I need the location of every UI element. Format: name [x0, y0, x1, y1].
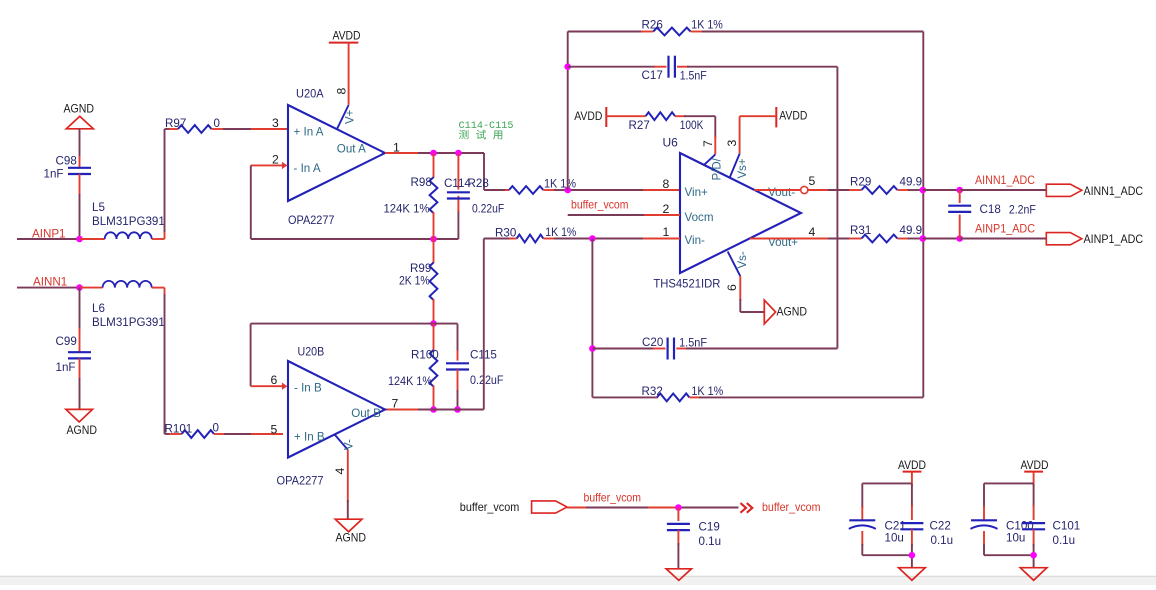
wire R30 to U6 pin 1 (Vin-) [592, 238, 680, 240]
ground below C19 [666, 569, 691, 581]
svg-text:Out B: Out B [351, 407, 381, 420]
svg-text:R27: R27 [629, 119, 650, 132]
svg-text:AINP1_ADC: AINP1_ADC [975, 223, 1035, 236]
junction R100 bottom [430, 406, 437, 413]
junction C20 left [589, 345, 596, 352]
junction C18 top [956, 187, 963, 194]
svg-text:R28: R28 [468, 177, 489, 190]
capacitor C101 [1022, 520, 1080, 548]
svg-text:P/D/: P/D/ [712, 157, 724, 180]
wire Vin+ node vertical to R26/C17 [567, 32, 569, 191]
svg-text:AGND: AGND [777, 305, 808, 319]
wire buffer_vcom [567, 507, 588, 509]
wire C115 top branch [434, 324, 458, 361]
capacitor C114 [444, 153, 504, 216]
svg-text:3: 3 [725, 140, 739, 147]
svg-text:5: 5 [809, 174, 816, 188]
svg-text:OPA2277: OPA2277 [277, 473, 324, 487]
wire AINP1_ADC to port [960, 238, 1047, 240]
wire AINP1 input [17, 238, 80, 240]
wire AINP1 node to L5 [80, 238, 105, 240]
svg-text:AINP1_ADC: AINP1_ADC [1084, 232, 1144, 246]
junction Vin- / vertical [589, 235, 596, 242]
wire Vin- node vertical to C20/R32 [591, 239, 593, 398]
wire R27 to U6 pin 7 [714, 116, 716, 154]
svg-text:buffer_vcom: buffer_vcom [762, 501, 821, 514]
svg-text:- In B: - In B [294, 382, 322, 395]
svg-text:R26: R26 [642, 19, 663, 32]
svg-text:AINN1: AINN1 [33, 276, 67, 289]
svg-text:buffer_vcom: buffer_vcom [584, 492, 642, 505]
svg-text:2K 1%: 2K 1% [399, 275, 430, 288]
wire C98 to AINP1 node [79, 174, 81, 239]
svg-text:+ In B: + In B [294, 431, 325, 444]
svg-text:8: 8 [335, 88, 349, 95]
U6 pin 5 bubble [801, 186, 808, 193]
svg-text:6: 6 [271, 373, 278, 387]
junction R99/R100/C115 [430, 320, 437, 327]
junction C17 left [564, 63, 571, 70]
U20B pin 6 arrowhead [282, 383, 288, 390]
svg-text:AGND: AGND [64, 102, 95, 116]
svg-text:THS4521IDR: THS4521IDR [653, 277, 720, 291]
svg-text:0.22uF: 0.22uF [472, 203, 504, 216]
svg-text:1: 1 [663, 225, 670, 239]
svg-text:V+: V+ [345, 109, 357, 124]
svg-text:1K 1%: 1K 1% [691, 18, 723, 31]
resistor R28 [468, 177, 577, 194]
ground below C100/C101 [1020, 568, 1047, 581]
wire Out B rail [385, 239, 513, 410]
wire U20A pin 2 feedback loop [251, 165, 459, 239]
svg-text:Vout-: Vout- [768, 186, 795, 199]
svg-text:1.5nF: 1.5nF [680, 70, 707, 83]
junction C114 top [455, 150, 462, 157]
svg-text:Vin+: Vin+ [685, 186, 709, 199]
wire L6 to R101 corner [152, 288, 182, 434]
off-page connector >> [741, 503, 753, 513]
wire AVDD to C100/C101 [984, 472, 1034, 521]
svg-text:BLM31PG391: BLM31PG391 [92, 215, 165, 228]
wire Vout- to C18 node [923, 189, 960, 191]
svg-text:124K 1%: 124K 1% [388, 375, 432, 388]
resistor R27 [606, 112, 715, 132]
svg-text:1K 1%: 1K 1% [545, 226, 576, 239]
wire AVDD to C21/C22 [862, 472, 912, 521]
svg-text:buffer_vcom: buffer_vcom [571, 198, 629, 211]
junction C22 ground [909, 552, 916, 559]
wire U20B pin 6 feedback loop [251, 324, 434, 387]
power AVDD right (Vs+) [776, 107, 807, 127]
svg-text:3: 3 [272, 116, 279, 130]
junction AINN1/C99 [76, 284, 83, 291]
wire AVDD to U20A pin 8 [348, 43, 350, 105]
svg-text:1nF: 1nF [56, 361, 76, 374]
svg-text:0: 0 [213, 422, 219, 435]
port AINP1_ADC [1046, 232, 1143, 246]
wire R28 to U6 pin 8 (Vin+) [568, 189, 680, 191]
junction C101 ground [1030, 552, 1037, 559]
svg-text:C20: C20 [642, 336, 663, 349]
wire AVDD to U6 pin 3 (Vs+) [740, 116, 777, 154]
svg-text:C22: C22 [930, 520, 951, 533]
wire Vocm [568, 214, 680, 216]
ground below C21/C22 [899, 568, 926, 581]
svg-text:100K: 100K [680, 119, 704, 132]
svg-text:1nF: 1nF [44, 168, 64, 181]
resistor R101 [165, 422, 219, 438]
op-amp U20A [288, 87, 385, 228]
svg-text:buffer_vcom: buffer_vcom [460, 500, 520, 514]
svg-text:0.1u: 0.1u [1053, 534, 1076, 547]
svg-text:C101: C101 [1053, 520, 1081, 533]
svg-text:V-: V- [344, 439, 356, 450]
ground AGND below C99 [66, 409, 97, 437]
capacitor C20 [592, 336, 837, 360]
svg-text:OPA2277: OPA2277 [288, 213, 335, 227]
svg-text:AGND: AGND [336, 531, 367, 545]
capacitor C115 [446, 349, 504, 410]
svg-text:C17: C17 [642, 69, 663, 82]
svg-text:2: 2 [663, 202, 670, 216]
note C114-C115 test use [459, 120, 514, 143]
wire AGND to C98 [79, 129, 81, 168]
port AINN1_ADC [1046, 184, 1143, 198]
svg-text:L5: L5 [92, 201, 105, 214]
wire AINN1_ADC to port [960, 189, 1047, 191]
svg-text:R100: R100 [411, 349, 439, 362]
svg-text:AINN1_ADC: AINN1_ADC [975, 174, 1035, 187]
junction AINP1/C98 [76, 236, 83, 243]
wire C99 to AGND [79, 358, 81, 409]
svg-text:BLM31PG391: BLM31PG391 [92, 316, 165, 329]
svg-text:Vin-: Vin- [685, 234, 706, 247]
svg-text:L6: L6 [92, 302, 105, 315]
resistor R98 [384, 153, 438, 239]
svg-text:R29: R29 [850, 176, 871, 189]
resistor R97 [165, 117, 220, 133]
wire R97 to U20A pin 3 [212, 128, 288, 130]
power AVDD above C101 [1021, 458, 1049, 472]
svg-text:5: 5 [271, 422, 278, 436]
svg-text:49.9: 49.9 [900, 176, 923, 189]
svg-text:4: 4 [809, 225, 816, 239]
wire Vout+ [750, 238, 850, 240]
junction R31 / feedback [920, 235, 927, 242]
capacitor C99 [56, 335, 92, 374]
wire Out A [385, 153, 509, 190]
op-amp U6 THS4521IDR [653, 135, 801, 290]
wire C100/C101 to ground [984, 529, 1034, 567]
svg-text:7: 7 [392, 397, 399, 411]
svg-text:AGND: AGND [67, 423, 98, 437]
wire C99 branch [79, 288, 81, 353]
svg-text:R32: R32 [642, 385, 663, 398]
wire AINN1 input [17, 287, 80, 289]
capacitor C18 [948, 190, 1036, 239]
svg-text:AVDD: AVDD [574, 109, 602, 123]
op-amp U20B [277, 345, 386, 488]
junction C18 bottom [956, 235, 963, 242]
capacitor C21 (polarized) [849, 520, 906, 545]
resistor R26 [568, 18, 924, 35]
svg-text:AINN1_ADC: AINN1_ADC [1084, 184, 1144, 198]
svg-text:Out A: Out A [337, 143, 366, 156]
svg-text:AVDD: AVDD [779, 109, 807, 123]
wire R101 to U20B pin 5 [214, 433, 283, 435]
svg-text:U20A: U20A [296, 87, 324, 101]
ground AGND below U20B [335, 519, 366, 544]
wire R26 right vertical to outputs [922, 32, 924, 398]
svg-text:Vs+: Vs+ [737, 158, 749, 178]
svg-text:2: 2 [272, 152, 279, 166]
svg-text:10u: 10u [885, 532, 904, 545]
svg-text:+ In A: + In A [294, 126, 324, 139]
svg-text:AVDD: AVDD [333, 29, 361, 43]
wire U20B pin 4 to AGND [347, 450, 349, 519]
svg-text:R31: R31 [850, 224, 871, 237]
resistor R30 [495, 226, 592, 242]
svg-text:6: 6 [725, 284, 739, 291]
wire C21/C22 to ground [862, 529, 912, 567]
svg-text:1K 1%: 1K 1% [544, 178, 576, 191]
svg-text:0.22uF: 0.22uF [470, 374, 504, 387]
capacitor C19 [667, 508, 721, 569]
svg-text:C19: C19 [699, 521, 720, 534]
svg-text:10u: 10u [1006, 532, 1025, 545]
svg-text:U20B: U20B [298, 345, 325, 359]
junction Vin+ / vertical [564, 187, 571, 194]
wire AINN1 node to L6 [80, 287, 103, 289]
svg-text:C98: C98 [56, 155, 77, 168]
junction buffer_vcom / C19 [675, 504, 682, 511]
junction feedback rail / R99 [430, 236, 437, 243]
svg-text:C18: C18 [980, 203, 1001, 216]
capacitor C22 [900, 520, 953, 548]
svg-text:Vocm: Vocm [685, 211, 714, 224]
svg-text:2.2nF: 2.2nF [1009, 204, 1036, 217]
svg-text:R30: R30 [495, 227, 516, 240]
svg-text:0.1u: 0.1u [931, 534, 954, 547]
port buffer_vcom [460, 500, 567, 514]
svg-text:7: 7 [701, 140, 715, 147]
svg-text:8: 8 [663, 177, 670, 191]
svg-text:AVDD: AVDD [898, 458, 926, 472]
junction C115 bottom [454, 406, 461, 413]
svg-text:4: 4 [333, 468, 347, 475]
wire L5 to R97 corner [152, 129, 178, 239]
svg-text:Vs-: Vs- [737, 251, 749, 268]
power AVDD above C22 [898, 458, 926, 472]
wire Vout+ to C18 node [923, 238, 960, 240]
svg-text:R99: R99 [410, 262, 431, 275]
svg-text:124K 1%: 124K 1% [384, 203, 430, 216]
svg-text:U6: U6 [663, 135, 679, 149]
ground AGND top-left [64, 102, 95, 129]
svg-text:- In A: - In A [294, 162, 321, 175]
wire Vout- [754, 189, 850, 191]
wire C17/C20 right vertical [836, 67, 838, 349]
svg-text:C114-C115: C114-C115 [459, 120, 514, 132]
svg-text:测 试 用: 测 试 用 [459, 129, 504, 143]
resistor R29 [849, 176, 923, 194]
svg-text:C99: C99 [56, 335, 77, 348]
resistor R32 [592, 385, 923, 401]
resistor R100 [388, 324, 439, 410]
svg-text:0.1u: 0.1u [699, 535, 722, 548]
capacitor C17 [568, 56, 838, 83]
svg-text:49.9: 49.9 [900, 224, 923, 237]
capacitor C100 (polarized) [971, 520, 1034, 545]
ground AGND right of U6 [764, 300, 807, 324]
wire U6 pin 6 (Vs-) to AGND [740, 276, 764, 312]
U20A pin 2 arrowhead [282, 162, 288, 169]
svg-text:1K 1%: 1K 1% [691, 385, 723, 398]
resistor R99 [399, 239, 437, 324]
power AVDD left of R27 [574, 107, 606, 127]
svg-text:R101: R101 [165, 423, 193, 436]
svg-text:R98: R98 [411, 176, 432, 189]
svg-text:AVDD: AVDD [1021, 458, 1049, 472]
junction R29 / feedback [920, 187, 927, 194]
power AVDD above U20A [329, 29, 361, 43]
junction R98 top [430, 150, 437, 157]
svg-text:1.5nF: 1.5nF [679, 336, 707, 349]
svg-text:R97: R97 [165, 117, 186, 130]
inductor L6 [92, 281, 165, 329]
resistor R31 [849, 224, 923, 243]
capacitor C98 [44, 155, 92, 181]
inductor L5 [92, 201, 165, 239]
